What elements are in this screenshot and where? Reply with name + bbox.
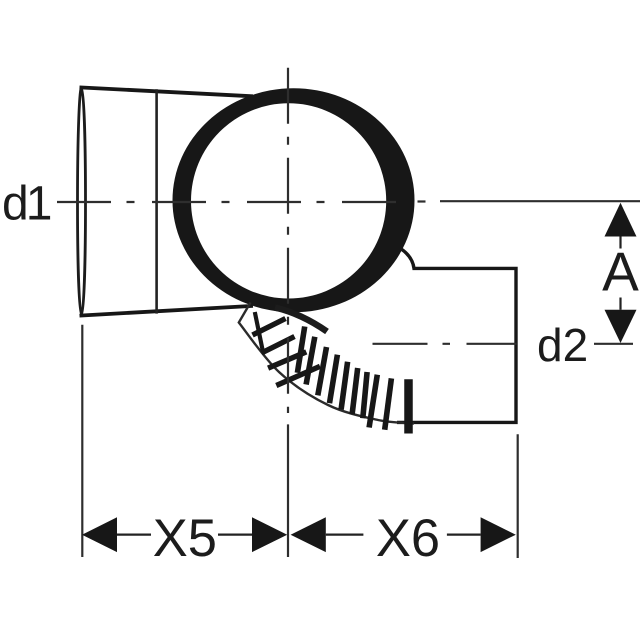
corrugated band outer boundary arc <box>239 303 414 424</box>
corrugation tick t6 <box>352 368 358 414</box>
corrugated band inner boundary curve <box>275 308 327 332</box>
dimension A line segments <box>619 237 621 249</box>
svg-text:d1: d1 <box>2 178 51 231</box>
dimension X5 line segments <box>117 533 151 535</box>
corrugation tick A <box>255 312 263 352</box>
dimension X6 left arrow <box>291 517 326 552</box>
corrugation tick t3 <box>318 347 327 395</box>
svg-text:X5: X5 <box>153 509 217 568</box>
svg-text:d2: d2 <box>537 319 588 371</box>
corrugation tick t7 <box>363 372 367 418</box>
vertical centerline of socket <box>287 68 289 413</box>
extension line left (X5) <box>81 325 83 557</box>
dimension A arrow up <box>605 203 637 237</box>
left pipe top edge <box>80 87 254 96</box>
corrugation tick t9 <box>385 378 392 429</box>
corrugation tick B <box>253 319 286 336</box>
corrugation tick t8 <box>369 375 377 428</box>
dimension X5 left arrow <box>82 517 117 552</box>
corrugation tick D3 <box>268 352 306 368</box>
dimension A arrow down <box>605 310 637 343</box>
corrugation tick t5 <box>341 362 348 410</box>
d1 horizontal centerline <box>57 201 400 203</box>
dimension X5 right arrow <box>252 517 287 552</box>
corrugation tick D4 <box>276 366 320 385</box>
extension line middle (X5/X6) <box>287 424 289 557</box>
extension line right (X6) <box>517 434 519 558</box>
corrugation tick t2 <box>306 337 315 385</box>
centerline dot right of socket <box>418 200 426 202</box>
corrugation tick t1 <box>297 327 304 373</box>
corrugation tick t10 <box>404 379 413 433</box>
svg-text:A: A <box>602 241 639 303</box>
d2 horizontal centerline <box>373 343 517 345</box>
svg-text:X6: X6 <box>376 509 440 568</box>
right pipe outline with fillet <box>397 249 516 423</box>
extension line top (A dimension, at d1 axis level) <box>440 200 640 202</box>
socket ring (thick annulus) <box>172 88 414 312</box>
extension line for d2 axis (right of d2 label) <box>594 343 633 345</box>
corrugation tick C <box>262 337 295 354</box>
dimension X6 line segments <box>326 533 364 535</box>
left pipe bottom edge <box>80 306 254 316</box>
corrugation tick t4 <box>330 355 338 404</box>
dimension X6 right arrow <box>481 517 516 552</box>
left pipe inner seam line <box>155 89 158 313</box>
left pipe end cap ellipse <box>78 88 86 315</box>
